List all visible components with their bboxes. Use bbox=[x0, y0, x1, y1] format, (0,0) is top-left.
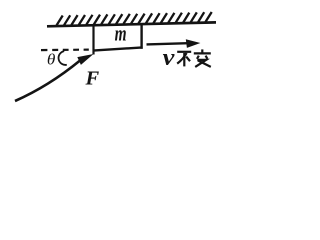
block m right edge bbox=[140, 23, 142, 49]
force F arrowhead bbox=[77, 54, 93, 65]
angle arc bbox=[59, 51, 67, 65]
velocity arrowhead bbox=[186, 39, 201, 48]
ceiling line bbox=[47, 22, 216, 26]
force F line bbox=[15, 61, 80, 102]
hanzi 变 (bian) bbox=[194, 49, 211, 67]
velocity arrow shaft bbox=[147, 43, 189, 44]
svg-text:m: m bbox=[115, 22, 127, 46]
block m left edge bbox=[92, 25, 94, 55]
block m bottom edge bbox=[93, 47, 143, 50]
svg-text:θ: θ bbox=[47, 50, 55, 68]
svg-text:F: F bbox=[85, 68, 100, 90]
hanzi 不 (bu) bbox=[177, 52, 191, 67]
dotted reference line bbox=[41, 48, 89, 51]
ceiling hatching bbox=[57, 12, 212, 25]
svg-text:v: v bbox=[163, 45, 176, 71]
